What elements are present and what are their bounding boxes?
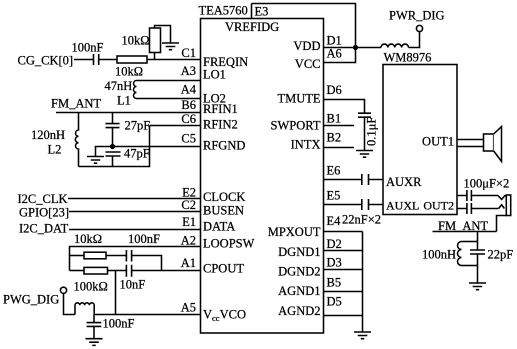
pin D6 TMUTE wire bbox=[324, 100, 365, 113]
terminal PWR_DIG bbox=[416, 25, 422, 31]
svg-text:I2C_CLK: I2C_CLK bbox=[18, 192, 68, 206]
capacitor 100nF loop filter bbox=[126, 250, 161, 271]
pin number D6 bbox=[327, 83, 342, 97]
net label FM_ANT right bbox=[438, 219, 488, 233]
value 0.1uF (rotated) bbox=[365, 117, 379, 146]
inductor L2 120nH bbox=[75, 113, 78, 167]
pin name CPOUT bbox=[203, 262, 244, 276]
pin name VccVCO bbox=[203, 308, 246, 324]
capacitor 47pF bbox=[106, 152, 121, 167]
svg-text:B1: B1 bbox=[327, 112, 342, 126]
svg-text:CPOUT: CPOUT bbox=[203, 262, 244, 276]
value 10k ohm loop filter bbox=[74, 232, 102, 246]
svg-text:D5: D5 bbox=[327, 295, 342, 309]
value 22nF x2 bbox=[342, 213, 381, 227]
svg-text:100nH: 100nH bbox=[422, 248, 456, 262]
label TEA5760 bbox=[199, 4, 248, 18]
svg-text:AUXR: AUXR bbox=[386, 175, 422, 189]
pin number E4 bbox=[327, 214, 342, 228]
svg-text:VccVCO: VccVCO bbox=[203, 308, 246, 324]
label WM8976 bbox=[384, 51, 432, 65]
ref L1 bbox=[117, 94, 131, 108]
capacitor 10nF loop filter bbox=[116, 265, 132, 277]
svg-text:D6: D6 bbox=[327, 83, 342, 97]
capacitor 100nF VCO decoupling bbox=[87, 315, 102, 339]
svg-text:E1: E1 bbox=[182, 215, 196, 229]
svg-text:D3: D3 bbox=[327, 256, 342, 270]
IC U2 WM8976 box bbox=[383, 65, 457, 215]
svg-text:RFIN2: RFIN2 bbox=[203, 118, 238, 132]
ground for 10k pullup bbox=[162, 43, 179, 50]
pin A4 LO2 wire bbox=[137, 98, 201, 100]
speaker LS1 bbox=[484, 127, 502, 162]
junction dot RFGND node bbox=[110, 144, 115, 149]
pin name VREFIDG bbox=[225, 20, 279, 34]
svg-text:120nH: 120nH bbox=[31, 128, 65, 142]
pin C6 RFIN2 wire bbox=[150, 125, 201, 127]
pin name OUT1 bbox=[422, 135, 454, 149]
pin name RFGND bbox=[203, 139, 245, 153]
net label I2C_CLK bbox=[18, 192, 68, 206]
svg-text:47pF: 47pF bbox=[124, 147, 150, 161]
value 47pF bbox=[124, 147, 150, 161]
pin B5 AGND1 wire bbox=[324, 291, 363, 293]
pin C5 RFGND wire bbox=[113, 146, 201, 148]
svg-text:DGND1: DGND1 bbox=[278, 245, 320, 259]
pin name TMUTE bbox=[277, 92, 320, 106]
wire RFGND to ground bbox=[96, 147, 113, 157]
svg-text:WM8976: WM8976 bbox=[384, 51, 432, 65]
svg-text:PWG_DIG: PWG_DIG bbox=[3, 293, 59, 307]
capacitor 100nF (CG_CK series) bbox=[94, 54, 99, 65]
pin B1 SWPORT stub bbox=[324, 125, 355, 127]
svg-text:47nH: 47nH bbox=[105, 79, 133, 93]
pin number C1 bbox=[181, 46, 196, 60]
pin name FREQIN bbox=[203, 55, 248, 69]
pin A3 LO1 wire bbox=[137, 80, 201, 82]
wire FM_ANT to tank bbox=[477, 232, 479, 250]
svg-text:RFGND: RFGND bbox=[203, 139, 245, 153]
svg-text:100nF: 100nF bbox=[128, 232, 160, 246]
pin number B1 bbox=[327, 112, 342, 126]
ground for bus bbox=[354, 332, 371, 339]
value 47nH bbox=[105, 79, 133, 93]
svg-text:C6: C6 bbox=[181, 112, 196, 126]
pin B6 RFIN1 wire (FM_ANT net) bbox=[56, 112, 201, 114]
value 100uF x2 bbox=[464, 177, 510, 191]
pin name MPXOUT bbox=[268, 225, 321, 239]
svg-text:AGND2: AGND2 bbox=[278, 304, 320, 318]
pin number A6 bbox=[327, 47, 342, 61]
resistor 10k loop filter bbox=[70, 252, 127, 259]
connector J1 headphone jack bbox=[497, 195, 511, 232]
resistor 10k vertical bbox=[150, 28, 161, 60]
pin name AGND2 bbox=[278, 304, 320, 318]
resistor 10k horizontal bbox=[117, 56, 147, 63]
pin B2 INTX stub bbox=[324, 147, 355, 149]
capacitor 22nF (VAFR coupling) bbox=[362, 174, 369, 185]
pin name VDD bbox=[293, 39, 320, 53]
pin OUT1 wires to speaker bbox=[457, 140, 484, 147]
svg-text:C5: C5 bbox=[181, 132, 196, 146]
pin E5 VAFL wire bbox=[324, 204, 384, 206]
pin number D5 bbox=[327, 295, 342, 309]
pin number A4 bbox=[181, 83, 197, 97]
svg-text:VDD: VDD bbox=[293, 39, 320, 53]
ground for FM tank bbox=[469, 283, 486, 290]
pin D3 DGND2 wire bbox=[324, 269, 363, 271]
svg-text:27pF: 27pF bbox=[125, 119, 151, 133]
svg-text:A1: A1 bbox=[181, 256, 196, 270]
capacitor 100uF top (OUT2 coupling) bbox=[467, 190, 472, 201]
svg-text:22pF: 22pF bbox=[488, 248, 514, 262]
svg-text:22nF×2: 22nF×2 bbox=[342, 213, 381, 227]
pin number A3 bbox=[181, 64, 196, 78]
value 22pF bbox=[488, 248, 514, 262]
pin name AUXL bbox=[386, 199, 419, 213]
svg-text:SWPORT: SWPORT bbox=[271, 119, 321, 133]
wire FM_ANT (headphone return) bbox=[433, 231, 497, 233]
pin name RFIN2 bbox=[203, 118, 238, 132]
svg-text:100μF×2: 100μF×2 bbox=[464, 177, 510, 191]
value 100nF VCO decoupling bbox=[103, 317, 135, 331]
pin number B2 bbox=[327, 131, 342, 145]
capacitor 100uF bottom (OUT2 coupling) bbox=[467, 203, 472, 214]
svg-text:E3: E3 bbox=[255, 5, 269, 19]
svg-text:CLOCK: CLOCK bbox=[203, 190, 245, 204]
svg-text:10kΩ: 10kΩ bbox=[115, 65, 143, 79]
value 10nF loop filter bbox=[120, 278, 146, 292]
pin number A5 bbox=[181, 301, 196, 315]
svg-text:E5: E5 bbox=[327, 189, 341, 203]
svg-text:BUSEN: BUSEN bbox=[203, 204, 244, 218]
pin A6 VCC wire bbox=[324, 48, 356, 63]
pin name RFIN1 bbox=[203, 102, 238, 116]
pin number D3 bbox=[327, 256, 342, 270]
svg-text:D2: D2 bbox=[327, 237, 342, 251]
pin number E6 bbox=[327, 164, 341, 178]
svg-text:100nF: 100nF bbox=[103, 317, 135, 331]
pin name LO1 bbox=[203, 68, 226, 82]
svg-text:A4: A4 bbox=[181, 83, 197, 97]
value 100nF (CG_CK series) bbox=[72, 41, 104, 55]
value 100k ohm loop filter bbox=[74, 280, 108, 294]
svg-text:100nF: 100nF bbox=[72, 41, 104, 55]
svg-text:A6: A6 bbox=[327, 47, 342, 61]
pin name OUT2 bbox=[423, 199, 454, 213]
svg-text:TMUTE: TMUTE bbox=[277, 92, 320, 106]
pin number C5 bbox=[181, 132, 196, 146]
value 10k ohm vertical bbox=[122, 34, 150, 48]
pin E3 stub at top of U1 bbox=[251, 4, 253, 19]
pin number D1 bbox=[327, 34, 342, 48]
pin number C2 bbox=[181, 198, 196, 212]
pin number C6 bbox=[181, 112, 196, 126]
pin name INTX bbox=[291, 138, 321, 152]
value 100nF loop filter bbox=[128, 232, 160, 246]
svg-text:MPXOUT: MPXOUT bbox=[268, 225, 321, 239]
capacitor 0.1uF bbox=[358, 113, 371, 150]
pin E1 DATA wire (I2C_DAT net) bbox=[69, 229, 201, 231]
pin name AUXR bbox=[386, 175, 422, 189]
pin name DGND1 bbox=[278, 245, 320, 259]
svg-text:C1: C1 bbox=[181, 46, 196, 60]
net label PWR_DIG bbox=[389, 9, 445, 23]
pin number E2 bbox=[182, 186, 196, 200]
pin number A1 bbox=[181, 256, 196, 270]
svg-text:0.1μF: 0.1μF bbox=[365, 117, 379, 146]
svg-text:A3: A3 bbox=[181, 64, 196, 78]
svg-text:L1: L1 bbox=[117, 94, 131, 108]
pin A5 VccVCO wire (PWG_DIG net) bbox=[64, 293, 201, 314]
wire tank top rail bbox=[462, 241, 478, 243]
value 10k ohm horizontal bbox=[115, 65, 143, 79]
svg-text:LO1: LO1 bbox=[203, 68, 226, 82]
pin C2 BUSEN wire (GPIO[23] net) bbox=[69, 211, 201, 213]
svg-text:GPIO[23]: GPIO[23] bbox=[19, 206, 69, 220]
svg-text:10kΩ: 10kΩ bbox=[122, 34, 150, 48]
inductor L1 47nH bbox=[134, 81, 137, 99]
pin E4 MPXOUT wire bbox=[324, 231, 363, 233]
wire tank bottom rail bbox=[462, 254, 478, 283]
inductor PWG ferrite bead bbox=[75, 303, 94, 315]
pin OUT2 wires bbox=[457, 196, 499, 209]
svg-text:TEA5760: TEA5760 bbox=[199, 4, 248, 18]
pin D2 DGND1 wire bbox=[324, 250, 363, 252]
pin name LOOPSW bbox=[203, 237, 255, 251]
wire ground bus right bbox=[362, 232, 364, 333]
svg-text:RFIN1: RFIN1 bbox=[203, 102, 238, 116]
value 120nH bbox=[31, 128, 65, 142]
svg-text:I2C_DAT: I2C_DAT bbox=[19, 222, 69, 236]
wire RF bottom rail to RFIN2 bbox=[79, 126, 150, 167]
pin name LO2 bbox=[203, 92, 226, 106]
pin E2 CLOCK wire (I2C_CLK net) bbox=[68, 198, 201, 200]
svg-text:100kΩ: 100kΩ bbox=[74, 280, 108, 294]
pin A1 CPOUT wire bbox=[132, 270, 201, 272]
ground for RF network bbox=[87, 157, 104, 164]
svg-text:PWR_DIG: PWR_DIG bbox=[389, 9, 445, 23]
pin number E5 bbox=[327, 189, 341, 203]
inductor L (PWR_DIG ferrite bead) bbox=[381, 44, 409, 47]
svg-text:A2: A2 bbox=[181, 234, 196, 248]
pin number B5 bbox=[327, 276, 342, 290]
net label PWG_DIG bbox=[3, 293, 59, 307]
svg-text:AUXL: AUXL bbox=[386, 199, 419, 213]
pin name CLOCK bbox=[203, 190, 245, 204]
svg-text:B5: B5 bbox=[327, 276, 342, 290]
terminal PWG_DIG bbox=[60, 287, 66, 293]
svg-text:B6: B6 bbox=[181, 98, 196, 112]
svg-text:LOOPSW: LOOPSW bbox=[203, 237, 255, 251]
svg-text:VCC: VCC bbox=[295, 57, 321, 71]
svg-text:L2: L2 bbox=[48, 143, 62, 157]
svg-text:B2: B2 bbox=[327, 131, 342, 145]
svg-text:E4: E4 bbox=[327, 214, 342, 228]
wire VDD to PWR_DIG bbox=[356, 32, 420, 48]
ground for 0.1uF bbox=[356, 151, 373, 158]
svg-text:E6: E6 bbox=[327, 164, 341, 178]
wire E3 net to VDD junction bbox=[252, 4, 356, 48]
pin name VCC bbox=[295, 57, 321, 71]
pin D5 AGND2 wire bbox=[324, 315, 363, 317]
pin number D2 bbox=[327, 237, 342, 251]
capacitor 22nF (VAFL coupling) bbox=[362, 199, 369, 210]
value 100nH bbox=[422, 248, 456, 262]
pin number B6 bbox=[181, 98, 196, 112]
value 27pF bbox=[125, 119, 151, 133]
IC U1 TEA5760 box bbox=[201, 19, 324, 334]
pin name DGND2 bbox=[278, 265, 320, 279]
svg-text:10nF: 10nF bbox=[120, 278, 146, 292]
pin C1 FREQIN wire (CG_CK[0] net) bbox=[74, 59, 201, 61]
svg-text:CG_CK[0]: CG_CK[0] bbox=[18, 54, 74, 68]
svg-text:FM_ANT: FM_ANT bbox=[51, 97, 101, 111]
pin number A2 bbox=[181, 234, 196, 248]
svg-text:D1: D1 bbox=[327, 34, 342, 48]
svg-text:C2: C2 bbox=[181, 198, 196, 212]
pin number E1 bbox=[182, 215, 196, 229]
svg-text:VREFIDG: VREFIDG bbox=[225, 20, 279, 34]
wire loop filter node to VCO row bbox=[115, 271, 117, 315]
net label FM_ANT left bbox=[51, 97, 101, 111]
svg-text:DATA: DATA bbox=[203, 220, 235, 234]
resistor 100k loop filter bbox=[70, 267, 116, 274]
svg-text:OUT1: OUT1 bbox=[422, 135, 454, 149]
capacitor 22pF bbox=[470, 250, 485, 254]
ref L2 bbox=[48, 143, 62, 157]
svg-text:DGND2: DGND2 bbox=[278, 265, 320, 279]
svg-text:AGND1: AGND1 bbox=[278, 284, 320, 298]
net label I2C_DAT bbox=[19, 222, 69, 236]
pin name BUSEN bbox=[203, 204, 244, 218]
svg-text:INTX: INTX bbox=[291, 138, 321, 152]
inductor 100nH bbox=[458, 242, 462, 266]
svg-text:FM_ANT: FM_ANT bbox=[438, 219, 488, 233]
wire 10k vertical to ground bbox=[155, 26, 171, 43]
pin name SWPORT bbox=[271, 119, 321, 133]
svg-text:A5: A5 bbox=[181, 301, 196, 315]
pin name AGND1 bbox=[278, 284, 320, 298]
pin D1 VDD wire bbox=[324, 47, 356, 49]
svg-text:10kΩ: 10kΩ bbox=[74, 232, 102, 246]
pin name DATA bbox=[203, 220, 235, 234]
ground for VCO decoupling bbox=[86, 339, 103, 346]
junction dot VDD node bbox=[353, 45, 358, 50]
svg-text:OUT2: OUT2 bbox=[423, 199, 454, 213]
capacitor 27pF bbox=[106, 113, 120, 147]
net label GPIO[23] bbox=[19, 206, 69, 220]
pin E6 VAFR wire bbox=[324, 179, 384, 181]
net label CG_CK[0] bbox=[18, 54, 74, 68]
pin number E3 bbox=[255, 5, 269, 19]
pin A2 LOOPSW wire bbox=[70, 247, 201, 271]
